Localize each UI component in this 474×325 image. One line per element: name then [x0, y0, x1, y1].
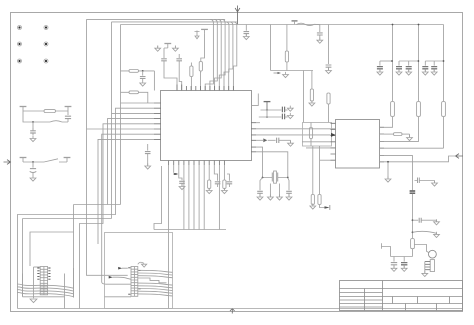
wire — [23, 110, 68, 112]
node — [418, 24, 420, 26]
U2 right pins — [380, 127, 385, 162]
ground — [290, 140, 292, 143]
capacitor C17 — [398, 61, 400, 66]
capacitor C19 — [424, 61, 426, 66]
power arrow in2 — [113, 277, 132, 279]
wire — [193, 165, 195, 230]
resistor R8 — [223, 165, 225, 180]
power symbol VCC1 — [20, 107, 27, 112]
MCU right pins — [251, 123, 256, 152]
mounting hole MH5 — [18, 59, 22, 63]
ground — [269, 184, 271, 197]
wire — [23, 111, 68, 122]
wire — [256, 134, 331, 136]
wire — [190, 63, 192, 91]
wire bus drop 5 — [224, 22, 229, 91]
ground — [396, 69, 402, 75]
wire — [198, 165, 200, 230]
node — [266, 116, 268, 118]
wire — [306, 147, 331, 149]
ground — [309, 100, 315, 106]
wire — [328, 25, 330, 65]
diode D2 — [256, 139, 263, 141]
capacitor C3 polarized — [32, 162, 34, 168]
node — [412, 219, 414, 221]
wire bus AVDD top — [121, 24, 444, 26]
wire — [380, 156, 413, 181]
wire — [302, 141, 331, 143]
wire — [380, 156, 456, 162]
ground — [406, 69, 412, 75]
wire bus drop 3 — [215, 19, 222, 90]
wire — [256, 128, 336, 130]
node — [418, 60, 420, 62]
wire bus drop 4 — [219, 19, 225, 90]
box around connector J2 — [105, 233, 173, 309]
capacitor C20 — [433, 61, 435, 66]
ground — [140, 80, 146, 86]
speaker LS1 — [429, 250, 437, 258]
wire — [164, 61, 177, 91]
resistor R13 — [391, 102, 395, 117]
node — [391, 60, 393, 62]
wire — [203, 165, 205, 230]
node — [266, 109, 268, 111]
wire bundle J1 — [17, 284, 74, 288]
ground — [422, 69, 428, 75]
diode D1 — [50, 121, 62, 122]
wire — [256, 152, 288, 178]
wire — [418, 25, 420, 102]
node — [443, 60, 445, 62]
resistor R1 — [44, 110, 56, 113]
wire corner — [154, 166, 162, 230]
wire — [23, 161, 67, 163]
off-page arrow bottom (node B1) — [230, 309, 235, 314]
wire cap group 2 — [399, 60, 418, 62]
resistor R14 — [417, 102, 421, 117]
wire wavy — [413, 231, 437, 233]
wire cap group 1 — [380, 60, 392, 62]
power arrow VDD3 — [320, 205, 325, 208]
wire — [382, 247, 391, 257]
wire bus drop 7 — [233, 22, 237, 91]
wire — [168, 165, 170, 230]
MCU bottom pins — [169, 161, 225, 166]
ground — [157, 46, 159, 49]
connector J2 body — [131, 267, 138, 297]
ground — [138, 262, 144, 264]
capacitor C18 — [408, 61, 410, 66]
wire — [256, 147, 263, 177]
wire — [256, 122, 260, 124]
capacitor C7 — [245, 25, 247, 31]
node XT2 — [287, 177, 289, 179]
resistor R4 — [190, 66, 193, 77]
capacitor C16 — [379, 61, 381, 66]
ground — [30, 299, 37, 303]
ground — [391, 266, 397, 272]
wire — [412, 181, 414, 191]
resistor R7 — [208, 165, 210, 180]
ground — [206, 188, 212, 194]
wire — [188, 165, 190, 230]
wire — [121, 71, 155, 91]
capacitor C5 — [164, 48, 168, 58]
power arrow VDD2 — [195, 31, 200, 39]
capacitor C13 series — [268, 139, 276, 141]
U2 left pins — [331, 123, 336, 160]
wire — [303, 71, 305, 123]
ground small — [283, 72, 289, 78]
wire bracket left J1 — [22, 274, 24, 297]
wire step J2 — [138, 278, 167, 283]
node A2 — [32, 161, 34, 163]
op-amp U1 MCU body — [161, 91, 252, 161]
ground — [285, 109, 288, 111]
capacitor C8 — [317, 33, 323, 35]
net arrow N3 — [274, 72, 278, 74]
resistor R6 — [327, 93, 330, 104]
wire staircase S7 — [102, 134, 154, 284]
capacitor C6 — [178, 54, 180, 58]
wire loop left — [271, 25, 314, 71]
ground — [174, 46, 176, 49]
ground — [243, 34, 249, 40]
ferrite bead FB1 — [410, 191, 416, 193]
wire bus bottom — [154, 229, 226, 231]
wire staircase S6 — [87, 19, 155, 275]
node — [392, 24, 394, 26]
ground — [377, 69, 383, 75]
capacitor C24 — [282, 107, 284, 113]
wire cap group 3 — [425, 60, 443, 62]
title block table — [340, 281, 463, 311]
wire — [443, 25, 445, 102]
connector J1 body — [40, 267, 47, 295]
ground — [436, 232, 438, 235]
wire — [23, 296, 65, 298]
wire — [168, 230, 170, 309]
wire fan J2 right — [138, 270, 173, 296]
wire — [120, 25, 122, 205]
wire — [380, 147, 444, 149]
ground — [285, 116, 288, 118]
ground — [30, 175, 36, 181]
J1 pin marks — [37, 268, 50, 279]
capacitor C4 — [142, 71, 144, 76]
wire — [111, 22, 113, 219]
op-amp U2 body — [336, 120, 380, 169]
wire — [412, 194, 414, 239]
wire — [218, 165, 220, 230]
wire bundle J1 — [17, 292, 74, 296]
wire staircase S1 — [30, 103, 154, 298]
crystal Y1 — [272, 173, 277, 182]
wire staircase S4 — [108, 119, 155, 205]
ground — [434, 181, 436, 183]
off-page arrow top (node T1) — [235, 6, 240, 25]
power symbol VCC4 — [64, 158, 71, 163]
wire — [443, 117, 445, 149]
connector J3 — [430, 260, 434, 272]
ground — [279, 184, 281, 197]
wire bus drop 2 — [210, 19, 217, 90]
wire staircase S5 — [80, 124, 155, 309]
cap with gnd on RST line — [415, 180, 435, 182]
power bar node — [292, 20, 298, 22]
inductor L1 — [295, 21, 320, 32]
ground — [431, 69, 437, 75]
capacitor C15 — [288, 178, 289, 191]
wire — [328, 104, 330, 123]
capacitor C9 — [147, 144, 149, 151]
off-page arrow left (node L1) — [4, 160, 11, 165]
ground — [317, 38, 323, 44]
MCU top pins — [177, 85, 233, 91]
node A1 — [32, 121, 34, 123]
wire bundle J1 — [17, 287, 74, 291]
capacitor C22 — [393, 257, 395, 262]
capacitor C23 — [403, 257, 405, 262]
box around reset network — [303, 123, 332, 147]
wire bundle J1 — [17, 290, 74, 294]
wire — [380, 117, 393, 128]
resistor R5 — [199, 62, 202, 72]
wire — [391, 249, 413, 257]
resistor R2 — [129, 70, 139, 73]
node XT1 — [262, 177, 264, 179]
resistor R16 — [411, 239, 415, 249]
wire — [320, 159, 331, 161]
power symbol VCC2 — [65, 107, 72, 112]
mounting hole MH1 — [18, 26, 22, 30]
ground — [310, 203, 316, 209]
mounting hole MH3 — [18, 42, 22, 46]
capacitor C21 series — [413, 219, 419, 221]
wire step from MCU top right — [252, 94, 259, 106]
capacitor C12 — [227, 174, 229, 181]
ground — [179, 184, 185, 190]
J2 pin marks — [128, 268, 140, 294]
node A3 — [142, 70, 144, 72]
wire bus VIO top — [112, 21, 237, 23]
capacitor C25 — [282, 114, 284, 120]
resistor R18 — [311, 71, 313, 90]
node N2 — [387, 161, 389, 163]
power symbol VCC7 — [264, 102, 271, 110]
net arrow N1 — [173, 165, 175, 173]
resistor R9 — [310, 123, 312, 128]
wire bus drop 1 — [205, 19, 213, 90]
wire — [179, 61, 182, 91]
mounting hole MH6 — [44, 59, 48, 63]
wire — [259, 110, 282, 117]
mounting hole MH2 — [44, 26, 48, 30]
off-page arrow right (node R1) — [456, 154, 464, 159]
resistor R11 — [319, 146, 321, 195]
resistor R12 — [380, 133, 394, 135]
capacitor C14 — [260, 178, 263, 191]
power symbol VCC3 — [20, 158, 27, 163]
ground — [222, 188, 228, 194]
ground — [387, 162, 389, 179]
capacitor C2 — [32, 122, 34, 130]
wire staircase S3 — [23, 113, 155, 296]
mounting hole MH4 — [44, 42, 48, 46]
switch S1 — [44, 159, 58, 162]
MCU left pins — [154, 103, 161, 139]
wire — [121, 92, 148, 103]
wire — [105, 296, 132, 298]
resistor R15 — [442, 102, 446, 117]
wire — [414, 245, 429, 253]
resistor R10 — [312, 146, 314, 195]
wire bus drop 6 — [229, 22, 233, 91]
wire — [392, 25, 394, 102]
power symbol VCC6 — [201, 29, 208, 34]
resistor R3 — [129, 91, 139, 94]
ground — [257, 194, 263, 200]
power arrow in1 — [122, 267, 128, 269]
ground — [422, 271, 428, 277]
capacitor C10 — [179, 165, 182, 180]
ground — [30, 136, 36, 142]
capacitor C11 — [214, 165, 217, 181]
wire bracket right J1 — [64, 274, 66, 309]
wire — [201, 34, 205, 91]
ground — [436, 220, 438, 221]
wire — [380, 117, 419, 142]
resistor R17 — [286, 25, 288, 52]
pin arrow U2 — [331, 133, 336, 137]
ground — [286, 194, 292, 200]
wire bus VDD top — [87, 18, 226, 20]
power symbol VCC5 — [164, 44, 171, 49]
wire staircase S8 — [98, 139, 154, 244]
wire staircase S2 — [18, 108, 155, 308]
wire — [33, 267, 35, 298]
ground — [145, 163, 151, 169]
wire — [183, 165, 185, 230]
J3 pins — [425, 262, 430, 270]
node — [412, 231, 414, 233]
ground — [401, 266, 407, 272]
capacitor C1 — [65, 116, 71, 118]
wire — [73, 268, 75, 298]
wire bottom rail — [18, 308, 463, 310]
ground — [409, 134, 411, 137]
